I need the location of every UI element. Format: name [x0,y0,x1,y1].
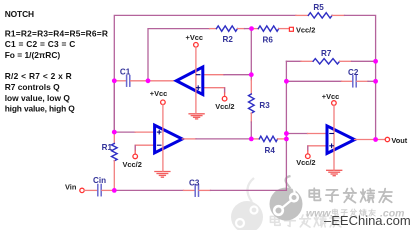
power +Vcc lead op2 through symbol [162,105,164,172]
ground symbol op3 [327,170,342,175]
node op2 plus [112,130,117,135]
terminal +Vcc circle (op2) [161,100,166,105]
node R4 right [284,137,289,142]
terminal Vin circle [80,188,84,192]
watermark logo [270,176,303,221]
wire R2 right lead [238,28,245,30]
note text block [5,9,108,114]
wire op2 plus input (from left column) [114,131,135,133]
wire R7 left lead [301,60,313,62]
wire R3 bottom lead [250,113,252,122]
wire R7 to right column [352,60,376,62]
svg-text:+Vcc: +Vcc [322,92,339,101]
svg-text:Vcc/2: Vcc/2 [123,160,142,169]
svg-text:C1: C1 [120,68,131,77]
wire R3 column lower [250,122,252,139]
svg-text:Vcc/2: Vcc/2 [296,158,315,167]
node C2 right [373,79,378,84]
svg-text:R2: R2 [223,35,234,44]
wire C3 left lead [184,189,195,191]
svg-text:R7: R7 [321,49,332,58]
svg-text:R5: R5 [313,3,324,12]
wire R3 top lead [250,80,252,94]
svg-text:R1=R2=R3=R4=R5=R6=R: R1=R2=R3=R4=R5=R6=R [5,28,108,38]
wire R6 right lead to Vcc/2 terminal [279,28,290,30]
watermark faint glyphs [270,215,341,227]
wire op2 minus input to Vcc/2 stub [135,145,154,149]
wire op2 output to junction [196,138,251,140]
svg-text:NOTCH: NOTCH [5,9,34,19]
wire R5 right lead [332,14,344,16]
wire R7 right lead [340,60,352,62]
svg-text:–EEChina.com: –EEChina.com [324,213,411,228]
svg-text:C3: C3 [189,178,200,187]
op-amp U2 (right pointing) [155,125,183,153]
wire R1 top lead [113,132,115,143]
capacitor Cin [98,185,101,196]
wire op1 minus input lead [203,74,224,76]
capacitor C1 [127,76,130,87]
op2 plus pin mark [157,130,161,134]
wire R5 left lead [296,14,308,16]
terminal +Vcc circle (op3) [332,101,337,106]
resistor R1 [112,144,118,161]
wire op3 output to Vout node [355,139,376,141]
terminal Vcc/2 circle (op2) [133,154,138,159]
terminal Vcc/2 circle (op1) [222,96,227,101]
svg-text:Vout: Vout [391,136,407,145]
svg-text:Vcc/2: Vcc/2 [215,102,234,111]
wire Cin to R1 node [102,189,115,191]
wire Vcc/2 stub lower (op1) [224,88,226,93]
wire C3 right lead [199,189,210,191]
wire op2 plus input lead [135,131,154,133]
wire left column (C1 node down to bottom rail) [113,81,115,132]
wire op3 minus input lead [308,133,328,135]
wire op1 minus to R3 column [224,74,251,76]
power +Vcc lead op3 through symbol [333,105,335,170]
resistor R4 [259,136,277,141]
wire R7 rail left [286,60,301,62]
svg-text:high value, high Q: high value, high Q [5,104,76,114]
svg-text:R/2 < R7 < 2 x R: R/2 < R7 < 2 x R [5,71,72,81]
wire C1 right to op1 output vertex [131,80,177,82]
capacitor C3 [195,185,198,196]
wire Vout stub [376,139,386,141]
resistor R7 [313,59,340,64]
node op2 out R4 [249,137,254,142]
watermark big glyphs white shadow [310,189,393,203]
wire Vcc/2 stub lower (op2) [134,146,136,151]
svg-text:R4: R4 [265,146,276,155]
watermark url glyphs [332,209,375,216]
node C1 out [146,78,151,83]
node R2-R6 [249,26,254,31]
watermark big glyphs gray [309,188,392,202]
node C1-R1 left [112,78,117,83]
svg-text:Fo = 1/(2πRC): Fo = 1/(2πRC) [5,50,61,60]
wire R2 left lead [210,28,217,30]
node op3 minus [284,131,289,136]
wire bottom rail right [211,189,287,191]
power +Vcc lead op1 through symbol [195,47,197,113]
wire op3 minus input from mid column [286,133,307,135]
wire R3 column upper [250,29,252,80]
resistor R6 [258,26,279,31]
svg-text:R3: R3 [259,101,270,110]
op-amp U3 (right pointing) [327,126,355,153]
svg-text:Vin: Vin [65,183,77,192]
ground symbol op2 [155,172,170,178]
wire R1 bottom lead [113,161,115,191]
wire op1 plus input to Vcc/2 stub [203,88,225,92]
terminal Vcc/2 circle (op3) [306,154,311,159]
resistor R5 [308,13,332,18]
wire C2 rail left [286,80,341,82]
svg-text:C1 = C2 = C3 = C: C1 = C2 = C3 = C [5,39,76,49]
wire bottom rail left [114,189,183,191]
op3 minus pin mark [330,133,334,135]
resistor R3 [249,94,255,113]
node R7 right [373,59,378,64]
wire op3 plus input to Vcc/2 stub [308,146,327,150]
svg-text:Vcc/2: Vcc/2 [296,26,315,35]
svg-text:+Vcc: +Vcc [186,33,203,42]
wire C2 right lead [357,80,368,82]
node Vout [373,137,378,142]
svg-text:+Vcc: +Vcc [150,89,167,98]
wire R2 to junction [245,28,254,30]
wire Vin to Cin [84,189,97,191]
wire top rail left (net: op1 out feedback to R5) [114,15,296,131]
terminal Vcc/2 square (R6) [289,27,293,31]
op1 minus pin mark [196,74,200,76]
svg-text:R7 controls Q: R7 controls Q [5,82,60,92]
wire R6 left lead [252,28,259,30]
svg-text:R6: R6 [263,36,274,45]
op1 plus pin mark [196,86,200,90]
terminal Vout circle [385,137,389,141]
wire C2 to right column [368,80,376,82]
wire C2 left lead [342,80,353,82]
watermark logo faint [231,178,263,233]
svg-text:R1: R1 [102,143,113,152]
wire R4 left lead [251,138,259,140]
op2 minus pin mark [157,144,161,146]
svg-text:Cin: Cin [93,176,106,185]
wire inner rail corner (C1 out node up to R2 rail) [148,29,210,81]
wire C1 left lead from node [114,80,126,82]
svg-text:C2: C2 [348,68,359,77]
wire Vcc/2 stub lower (op3) [307,146,309,151]
node Cin-R1 [112,188,117,193]
terminal +Vcc circle (op1) [194,43,199,48]
wire R4 right lead [278,138,287,140]
capacitor C2 [353,76,356,87]
node C2 left [284,79,289,84]
resistor R2 [216,26,237,31]
node op1 minus [249,72,254,77]
op3 plus pin mark [330,144,334,148]
svg-text:low value, low Q: low value, low Q [5,93,71,103]
ground symbol op1 [189,114,204,119]
wire op2 output lead [182,138,196,140]
wire mid column (R7/C2 left side down to bottom rail) [285,61,287,190]
op-amp U1 (left pointing) [176,67,203,95]
wire top rail right + right vertical down to Vout node [345,15,376,139]
